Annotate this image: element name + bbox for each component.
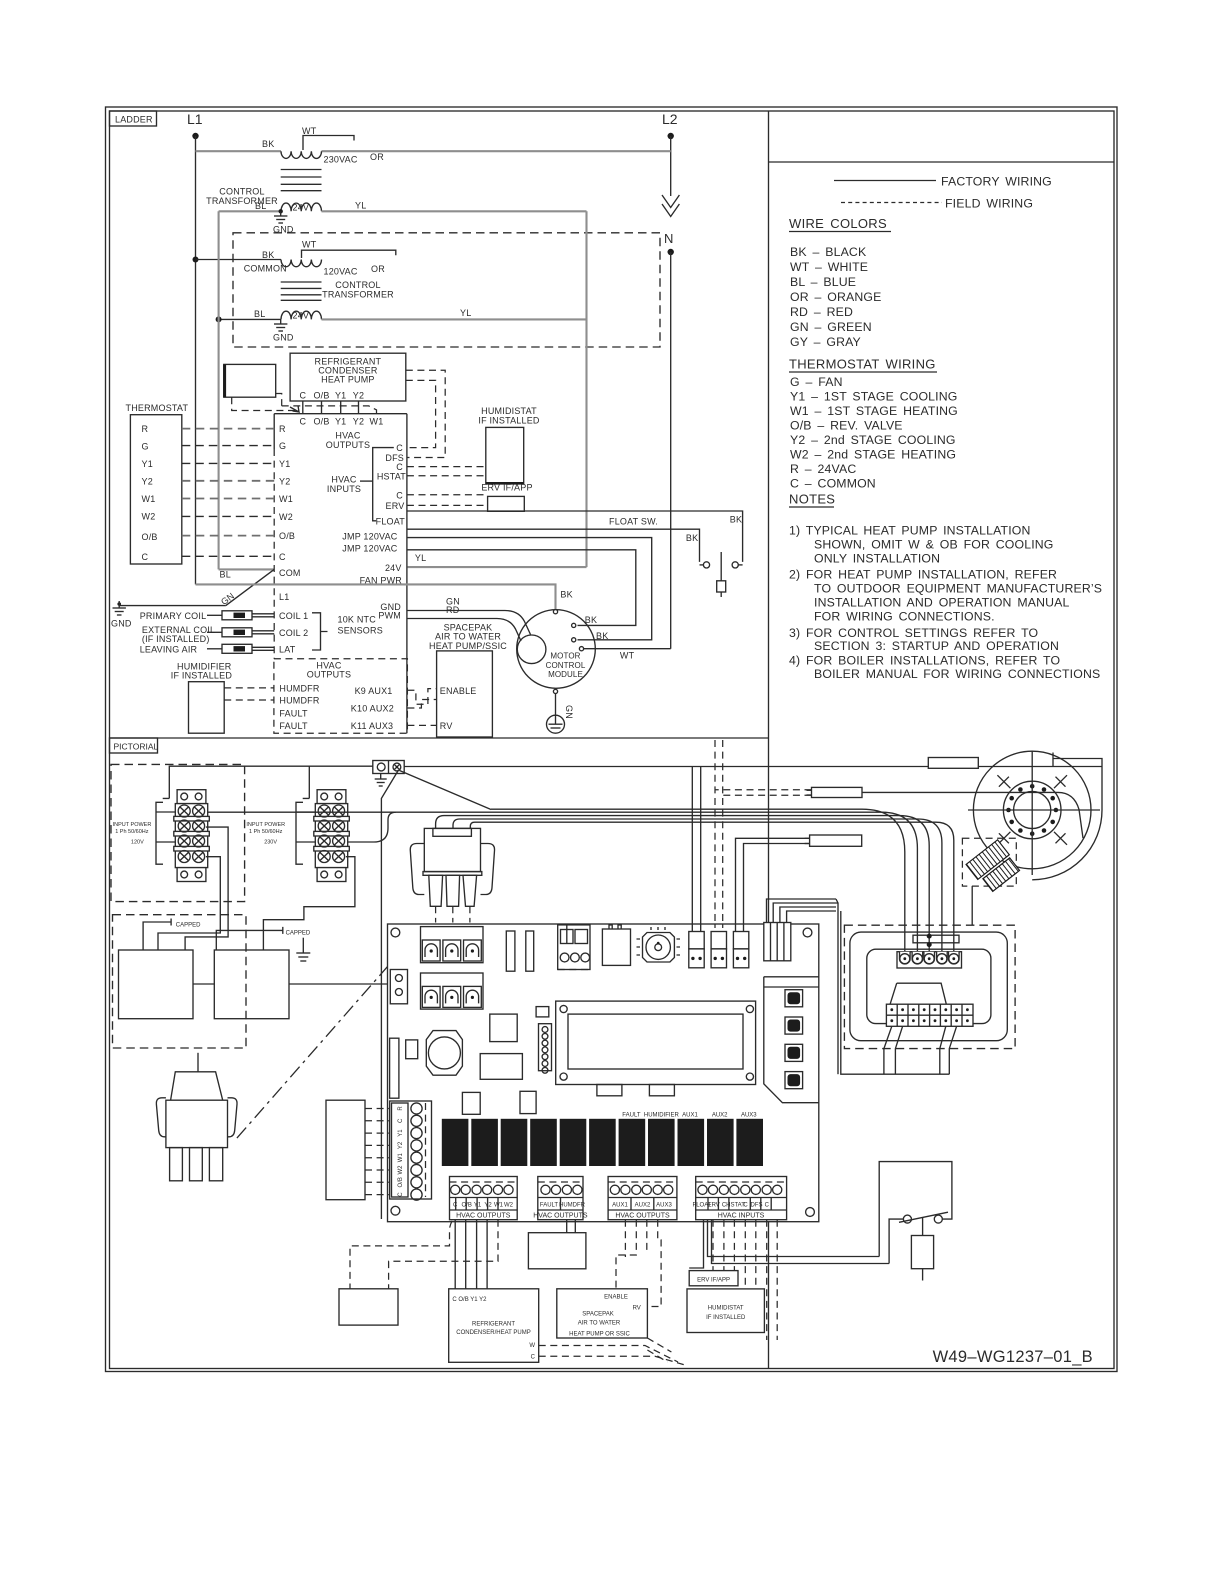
svg-text:GND: GND [273, 333, 294, 343]
svg-text:W1: W1 [398, 1153, 404, 1163]
svg-text:ERV: ERV [708, 1203, 720, 1209]
svg-text:C: C [142, 552, 149, 562]
svg-text:R: R [142, 424, 149, 434]
svg-text:OR – ORANGE: OR – ORANGE [790, 290, 881, 304]
svg-text:24V: 24V [293, 203, 310, 213]
svg-text:HVAC INPUTS: HVAC INPUTS [718, 1213, 765, 1220]
svg-text:CONDENSER/HEAT PUMP: CONDENSER/HEAT PUMP [456, 1330, 530, 1336]
svg-text:HEAT PUMP/SSIC: HEAT PUMP/SSIC [429, 641, 507, 651]
svg-text:L2: L2 [662, 111, 678, 127]
svg-text:YL: YL [460, 308, 471, 318]
svg-text:Y2: Y2 [353, 391, 364, 401]
svg-text:HUMDFR: HUMDFR [279, 696, 319, 706]
svg-text:WT: WT [302, 126, 317, 136]
svg-text:ERV IF/APP: ERV IF/APP [481, 483, 532, 493]
svg-text:BK – BLACK: BK – BLACK [790, 245, 867, 259]
svg-text:1) TYPICAL HEAT PUMP INSTA: 1) TYPICAL HEAT PUMP INSTALLATION [789, 524, 1031, 538]
svg-text:THERMOSTAT WIRING: THERMOSTAT WIRING [789, 357, 936, 372]
svg-text:BK: BK [262, 139, 274, 149]
svg-text:C: C [531, 1355, 536, 1361]
svg-text:G: G [142, 442, 149, 452]
svg-text:COMMON: COMMON [244, 264, 287, 274]
svg-text:ENABLE: ENABLE [440, 686, 477, 696]
svg-text:GN: GN [564, 705, 574, 719]
svg-text:COIL 1: COIL 1 [279, 611, 308, 621]
svg-text:W1: W1 [370, 417, 384, 427]
svg-text:24V: 24V [293, 311, 310, 321]
svg-text:TO OUTDOOR EQUIPMENT MANUFA: TO OUTDOOR EQUIPMENT MANUFACTURER’S [814, 582, 1102, 596]
svg-text:2) FOR HEAT PUMP INSTALLAT: 2) FOR HEAT PUMP INSTALLATION, REFER [789, 568, 1057, 582]
svg-text:BOILER MANUAL FOR WIRING C: BOILER MANUAL FOR WIRING CONNECTIONS [814, 667, 1100, 681]
svg-text:INPUT POWER: INPUT POWER [113, 822, 152, 828]
svg-text:OUTPUTS: OUTPUTS [326, 440, 370, 450]
svg-text:C: C [396, 443, 403, 453]
svg-text:AUX2: AUX2 [635, 1203, 651, 1209]
svg-text:CAPPED: CAPPED [286, 931, 311, 937]
svg-text:AUX3: AUX3 [741, 1113, 757, 1119]
svg-text:C: C [765, 1203, 770, 1209]
svg-text:(IF INSTALLED): (IF INSTALLED) [142, 634, 210, 644]
svg-text:IF INSTALLED: IF INSTALLED [171, 671, 233, 681]
svg-text:BL: BL [220, 570, 231, 580]
svg-text:G: G [279, 441, 286, 451]
svg-text:IF INSTALLED: IF INSTALLED [706, 1315, 746, 1321]
svg-text:INPUTS: INPUTS [327, 484, 361, 494]
svg-text:ONLY INSTALLATION: ONLY INSTALLATION [814, 552, 940, 566]
svg-text:Y2: Y2 [142, 476, 153, 486]
svg-text:BL: BL [255, 201, 266, 211]
svg-text:Y1: Y1 [474, 1203, 482, 1209]
svg-text:RD – RED: RD – RED [790, 305, 853, 319]
svg-text:CAPPED: CAPPED [176, 923, 201, 929]
svg-text:PWM: PWM [378, 611, 401, 621]
svg-text:HUMDFR: HUMDFR [279, 684, 319, 694]
svg-text:C – COMMON: C – COMMON [790, 477, 876, 491]
svg-text:C O/B Y1 Y2: C O/B Y1 Y2 [452, 1297, 487, 1303]
svg-text:BK: BK [686, 533, 698, 543]
svg-text:YL: YL [415, 553, 426, 563]
svg-text:OR: OR [371, 264, 385, 274]
svg-text:TRANSFORMER: TRANSFORMER [206, 196, 278, 206]
svg-text:Y1: Y1 [142, 459, 153, 469]
svg-text:COIL 2: COIL 2 [279, 628, 308, 638]
svg-text:Y1: Y1 [279, 459, 290, 469]
svg-text:INPUT POWER: INPUT POWER [246, 822, 285, 828]
svg-text:C: C [743, 1203, 748, 1209]
svg-text:W: W [529, 1343, 535, 1349]
svg-text:THERMOSTAT: THERMOSTAT [126, 403, 189, 413]
svg-text:HSTAT: HSTAT [377, 471, 406, 481]
svg-text:HEAT PUMP OR SSIC: HEAT PUMP OR SSIC [569, 1332, 630, 1338]
svg-text:GND: GND [111, 619, 132, 629]
svg-text:C: C [279, 552, 286, 562]
svg-text:K11 AUX3: K11 AUX3 [351, 721, 393, 731]
svg-text:FAULT: FAULT [540, 1203, 559, 1209]
svg-text:O/B: O/B [142, 532, 158, 542]
svg-text:L1: L1 [187, 111, 203, 127]
svg-text:Y1 – 1ST STAGE COOLING: Y1 – 1ST STAGE COOLING [790, 390, 957, 404]
svg-text:FOR WIRING CONNECTIONS.: FOR WIRING CONNECTIONS. [814, 610, 995, 624]
svg-text:RD: RD [446, 605, 460, 615]
svg-text:FACTORY WIRING: FACTORY WIRING [941, 175, 1052, 189]
svg-text:Y1: Y1 [398, 1129, 404, 1137]
svg-text:HUMDFR: HUMDFR [559, 1203, 586, 1209]
svg-text:JMP 120VAC: JMP 120VAC [342, 532, 397, 542]
svg-text:N: N [664, 231, 673, 246]
svg-text:RV: RV [633, 1306, 641, 1312]
svg-text:TRANSFORMER: TRANSFORMER [322, 290, 394, 300]
svg-text:CONTROL: CONTROL [335, 280, 380, 290]
svg-text:WT: WT [620, 651, 635, 661]
svg-text:W2: W2 [279, 512, 293, 522]
svg-text:10K NTC: 10K NTC [338, 615, 377, 625]
svg-text:HEAT PUMP: HEAT PUMP [321, 375, 374, 385]
svg-text:AUX1: AUX1 [612, 1203, 628, 1209]
svg-text:W2: W2 [504, 1203, 514, 1209]
svg-text:C: C [396, 490, 403, 500]
svg-text:HVAC OUTPUTS: HVAC OUTPUTS [615, 1213, 670, 1220]
svg-text:230V: 230V [264, 840, 277, 846]
svg-text:R – 24VAC: R – 24VAC [790, 462, 856, 476]
svg-text:GN – GREEN: GN – GREEN [790, 320, 872, 334]
svg-text:W1: W1 [494, 1203, 504, 1209]
svg-text:NOTES: NOTES [789, 492, 835, 507]
svg-text:W49–WG1237–01_B: W49–WG1237–01_B [933, 1348, 1093, 1366]
svg-text:Y2: Y2 [484, 1203, 492, 1209]
svg-text:HVAC OUTPUTS: HVAC OUTPUTS [456, 1213, 511, 1220]
svg-text:IF INSTALLED: IF INSTALLED [478, 415, 540, 425]
svg-text:LADDER: LADDER [115, 115, 153, 125]
svg-text:3) FOR CONTROL SETTINGS RE: 3) FOR CONTROL SETTINGS REFER TO [789, 626, 1038, 640]
svg-text:FAULT: FAULT [279, 721, 308, 731]
svg-text:YL: YL [355, 201, 366, 211]
svg-text:OR: OR [370, 152, 384, 162]
svg-text:PRIMARY COIL: PRIMARY COIL [140, 611, 207, 621]
svg-text:ERV: ERV [386, 501, 405, 511]
svg-text:W2 – 2nd STAGE HEATING: W2 – 2nd STAGE HEATING [790, 448, 956, 462]
svg-text:COM: COM [279, 568, 301, 578]
svg-text:120VAC: 120VAC [324, 267, 358, 277]
svg-text:REFRIGERANT: REFRIGERANT [472, 1322, 515, 1328]
svg-text:MODULE: MODULE [548, 670, 583, 679]
svg-text:FIELD WIRING: FIELD WIRING [945, 197, 1033, 211]
svg-text:GY – GRAY: GY – GRAY [790, 335, 861, 349]
svg-text:BK: BK [585, 615, 597, 625]
svg-text:SPACEPAK: SPACEPAK [582, 1312, 613, 1318]
svg-text:1 Ph 50/60Hz: 1 Ph 50/60Hz [115, 829, 149, 835]
svg-text:BL: BL [254, 309, 265, 319]
svg-text:L1: L1 [279, 592, 289, 602]
svg-text:MOTOR: MOTOR [550, 652, 580, 661]
svg-text:INSTALLATION AND OPERATION: INSTALLATION AND OPERATION MANUAL [814, 596, 1069, 610]
svg-text:CONTROL: CONTROL [219, 187, 264, 197]
svg-text:24V: 24V [385, 563, 402, 573]
svg-text:BK: BK [560, 590, 572, 600]
svg-text:120V: 120V [131, 840, 144, 846]
svg-text:CONTROL: CONTROL [546, 661, 586, 670]
svg-text:AIR TO WATER: AIR TO WATER [578, 1321, 621, 1327]
svg-text:C: C [299, 391, 306, 401]
svg-text:BL – BLUE: BL – BLUE [790, 275, 856, 289]
svg-text:230VAC: 230VAC [324, 155, 358, 165]
svg-text:Y2: Y2 [279, 476, 290, 486]
svg-text:HVAC OUTPUTS: HVAC OUTPUTS [533, 1213, 588, 1220]
svg-text:HUMIDISTAT: HUMIDISTAT [708, 1306, 744, 1312]
svg-text:ERV IF/APP: ERV IF/APP [697, 1278, 730, 1284]
svg-text:FAULT: FAULT [622, 1113, 641, 1119]
svg-text:PICTORIAL: PICTORIAL [114, 742, 159, 752]
svg-text:C: C [398, 1192, 404, 1197]
svg-text:LEAVING AIR: LEAVING AIR [140, 645, 198, 655]
svg-text:BK: BK [730, 515, 742, 525]
svg-text:Y2 – 2nd STAGE COOLING: Y2 – 2nd STAGE COOLING [790, 433, 956, 447]
svg-text:W1 – 1ST STAGE HEATING: W1 – 1ST STAGE HEATING [790, 404, 958, 418]
svg-text:C: C [398, 1118, 404, 1123]
svg-text:WIRE COLORS: WIRE COLORS [789, 216, 887, 231]
svg-text:WT: WT [302, 240, 317, 250]
svg-text:O/B: O/B [279, 531, 295, 541]
svg-text:HUMIDIFIER: HUMIDIFIER [644, 1113, 680, 1119]
svg-text:O/B: O/B [313, 391, 329, 401]
svg-text:O/B: O/B [398, 1177, 404, 1187]
svg-text:W2: W2 [398, 1165, 404, 1175]
svg-text:Y2: Y2 [353, 417, 364, 427]
svg-text:LAT: LAT [279, 644, 296, 654]
svg-text:C: C [299, 417, 306, 427]
svg-text:SHOWN, OMIT W & OB FOR C: SHOWN, OMIT W & OB FOR COOLING [814, 538, 1054, 552]
svg-text:FAULT: FAULT [279, 709, 308, 719]
svg-text:AUX3: AUX3 [656, 1203, 672, 1209]
svg-text:FLOAT: FLOAT [376, 516, 406, 526]
svg-text:Y2: Y2 [398, 1141, 404, 1149]
svg-text:SENSORS: SENSORS [338, 626, 383, 636]
svg-text:AUX1: AUX1 [682, 1113, 698, 1119]
svg-text:FLOAT SW.: FLOAT SW. [609, 517, 658, 527]
svg-text:1 Ph 50/60Hz: 1 Ph 50/60Hz [249, 829, 283, 835]
svg-text:RV: RV [440, 721, 453, 731]
svg-text:Y1: Y1 [335, 417, 346, 427]
svg-text:AUX2: AUX2 [712, 1113, 728, 1119]
svg-text:BK: BK [262, 250, 274, 260]
svg-text:W1: W1 [279, 494, 293, 504]
svg-text:W2: W2 [142, 512, 156, 522]
svg-text:O/B – REV. VALVE: O/B – REV. VALVE [790, 419, 903, 433]
svg-text:ENABLE: ENABLE [604, 1295, 628, 1301]
svg-text:BK: BK [596, 631, 608, 641]
svg-text:SECTION 3: STARTUP AND OPE: SECTION 3: STARTUP AND OPERATION [814, 639, 1059, 653]
svg-text:WT – WHITE: WT – WHITE [790, 260, 868, 274]
svg-text:G – FAN: G – FAN [790, 375, 843, 389]
svg-text:R: R [279, 424, 286, 434]
svg-text:OUTPUTS: OUTPUTS [307, 670, 351, 680]
svg-text:K10 AUX2: K10 AUX2 [351, 704, 394, 714]
svg-text:W1: W1 [142, 494, 156, 504]
svg-text:JMP 120VAC: JMP 120VAC [342, 544, 397, 554]
svg-text:R: R [398, 1106, 404, 1111]
svg-text:K9 AUX1: K9 AUX1 [355, 686, 393, 696]
svg-text:Y1: Y1 [335, 391, 346, 401]
svg-text:4) FOR BOILER INSTALLATIONS: 4) FOR BOILER INSTALLATIONS, REFER TO [789, 654, 1060, 668]
svg-text:DFS: DFS [751, 1203, 763, 1209]
svg-text:O/B: O/B [313, 417, 329, 427]
